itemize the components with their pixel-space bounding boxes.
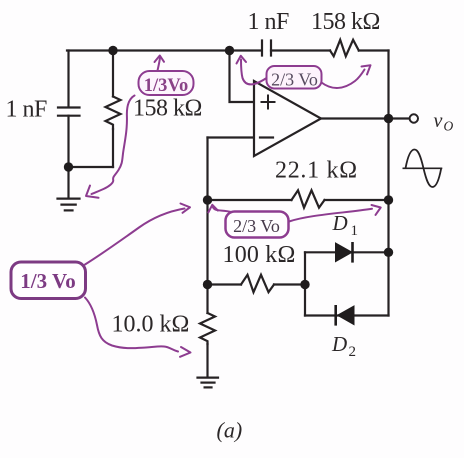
svg-text:100 kΩ: 100 kΩ bbox=[223, 242, 296, 268]
svg-text:158 kΩ: 158 kΩ bbox=[133, 95, 202, 121]
svg-text:D: D bbox=[331, 332, 347, 356]
svg-text:1 nF: 1 nF bbox=[6, 96, 48, 122]
svg-text:2: 2 bbox=[349, 344, 357, 360]
svg-text:v: v bbox=[434, 110, 443, 132]
svg-text:22.1 kΩ: 22.1 kΩ bbox=[275, 157, 358, 183]
svg-text:1: 1 bbox=[351, 223, 359, 239]
svg-text:O: O bbox=[444, 119, 454, 134]
svg-text:1/3 Vo: 1/3 Vo bbox=[20, 269, 75, 293]
svg-text:158 kΩ: 158 kΩ bbox=[311, 9, 380, 35]
svg-text:1/3Vo: 1/3Vo bbox=[144, 76, 189, 96]
svg-text:1 nF: 1 nF bbox=[248, 9, 290, 35]
svg-text:10.0 kΩ: 10.0 kΩ bbox=[112, 311, 190, 337]
svg-text:2/3 Vo: 2/3 Vo bbox=[233, 216, 280, 236]
svg-text:2/3 Vo: 2/3 Vo bbox=[271, 70, 318, 90]
svg-text:(a): (a) bbox=[217, 417, 243, 442]
svg-text:D: D bbox=[332, 211, 348, 235]
